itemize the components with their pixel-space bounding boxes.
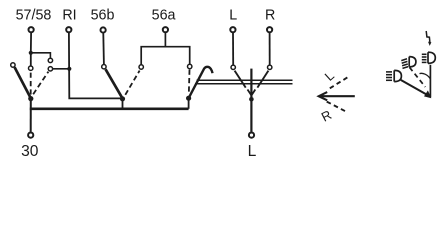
contact finger R <box>257 71 268 88</box>
switch blade S3 with hooked tip <box>189 67 213 98</box>
wire RI down and to pivot S2 <box>69 33 123 98</box>
turn signal lever arrow <box>319 92 355 100</box>
terminal 30 <box>28 133 33 138</box>
wire stub to upper right contact <box>31 53 51 58</box>
lightning bolt tip <box>428 42 431 46</box>
node junction center <box>249 97 254 102</box>
wire 57/58 down <box>30 33 32 66</box>
terminal L <box>230 27 235 32</box>
contact 56b <box>102 65 106 69</box>
terminal R <box>267 27 272 32</box>
svg-text:30: 30 <box>21 143 39 160</box>
terminal RI <box>66 27 71 32</box>
svg-text:56a: 56a <box>152 8 176 24</box>
dashed alternate position S2 <box>125 71 139 95</box>
lever position line vertical <box>429 65 431 98</box>
terminal L bottom <box>249 133 254 138</box>
contact left (off position) <box>11 63 15 67</box>
terminal 57/58 <box>29 27 34 32</box>
contact L <box>231 65 235 69</box>
mechanical coupling double line upper <box>197 79 293 81</box>
wire pivot S2 to bus <box>122 99 124 109</box>
contact middle (on 57/58 line) <box>29 66 33 70</box>
wire 56a T-branch <box>141 33 190 65</box>
wire contact to RI line <box>53 68 70 70</box>
svg-text:57/58: 57/58 <box>16 8 52 24</box>
wire bottom bus 30 <box>30 107 189 110</box>
wire center L down <box>250 69 252 132</box>
dashed alternate position S3 vertical <box>188 70 191 95</box>
switch blade S2 (56b to pivot) <box>106 69 123 98</box>
node junction 57/58 <box>29 51 33 55</box>
flash symbol lightning bolt <box>426 31 430 42</box>
terminal 56b <box>101 27 106 32</box>
dashed lever position middle <box>410 67 426 87</box>
headlight icon low beam left <box>386 70 401 81</box>
node junction RI <box>67 67 71 71</box>
switch blade S1 (to left contact) <box>15 67 31 98</box>
mechanical coupling double line lower <box>195 83 293 85</box>
wire 56b down <box>102 33 105 64</box>
contact right of S1 (to RI) <box>48 67 52 71</box>
lever arrowhead <box>424 90 431 98</box>
svg-text:RI: RI <box>62 8 76 24</box>
wire L down <box>232 33 234 65</box>
svg-text:R: R <box>319 107 334 125</box>
node pivot S3 <box>186 96 191 101</box>
node pivot S2 <box>120 96 125 101</box>
svg-text:L: L <box>322 68 337 84</box>
dashed lever position L <box>330 77 349 88</box>
dashed alternate position S1 vertical <box>30 73 32 95</box>
dashed lever position R <box>327 102 348 113</box>
headlight icon dipped beam middle <box>401 57 416 69</box>
node pivot S1 <box>28 96 33 101</box>
dashed alternate position S1 diagonal <box>33 72 48 95</box>
svg-text:L: L <box>248 143 257 160</box>
wire pivot S3 to bus <box>188 98 190 109</box>
contact R <box>268 65 272 69</box>
rotation arc <box>420 73 431 78</box>
wire R down <box>269 33 271 65</box>
contact 56a left <box>139 65 143 69</box>
terminal 56a <box>163 27 168 32</box>
arrowhead down on center wire <box>248 90 256 96</box>
dimmer lever with arrowhead <box>401 80 427 95</box>
headlight icon high beam top <box>422 52 436 63</box>
contact 56a right <box>188 64 192 68</box>
contact finger L <box>235 71 246 88</box>
contact upper right (fed by 57/58) <box>48 58 52 62</box>
wire pivot to terminal 30 <box>30 99 32 132</box>
svg-text:R: R <box>265 8 275 24</box>
svg-text:56b: 56b <box>91 8 115 24</box>
svg-text:L: L <box>229 8 237 24</box>
